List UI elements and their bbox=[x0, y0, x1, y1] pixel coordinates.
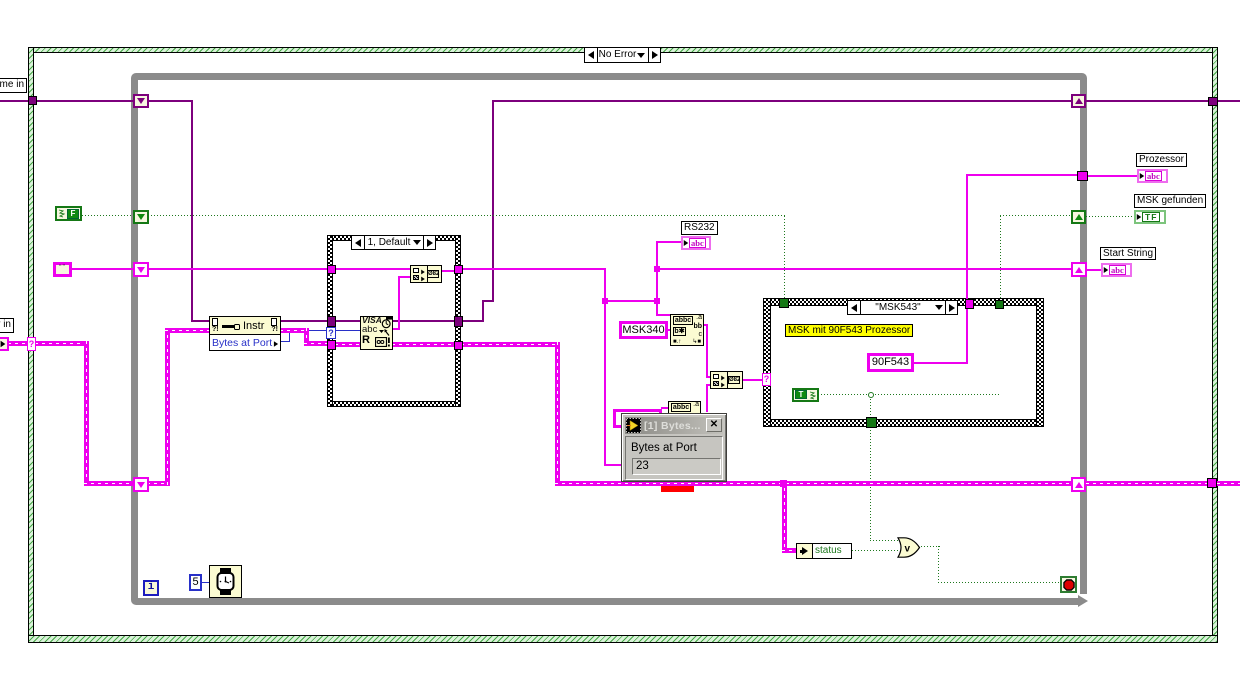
svg-text:v: v bbox=[905, 544, 911, 555]
